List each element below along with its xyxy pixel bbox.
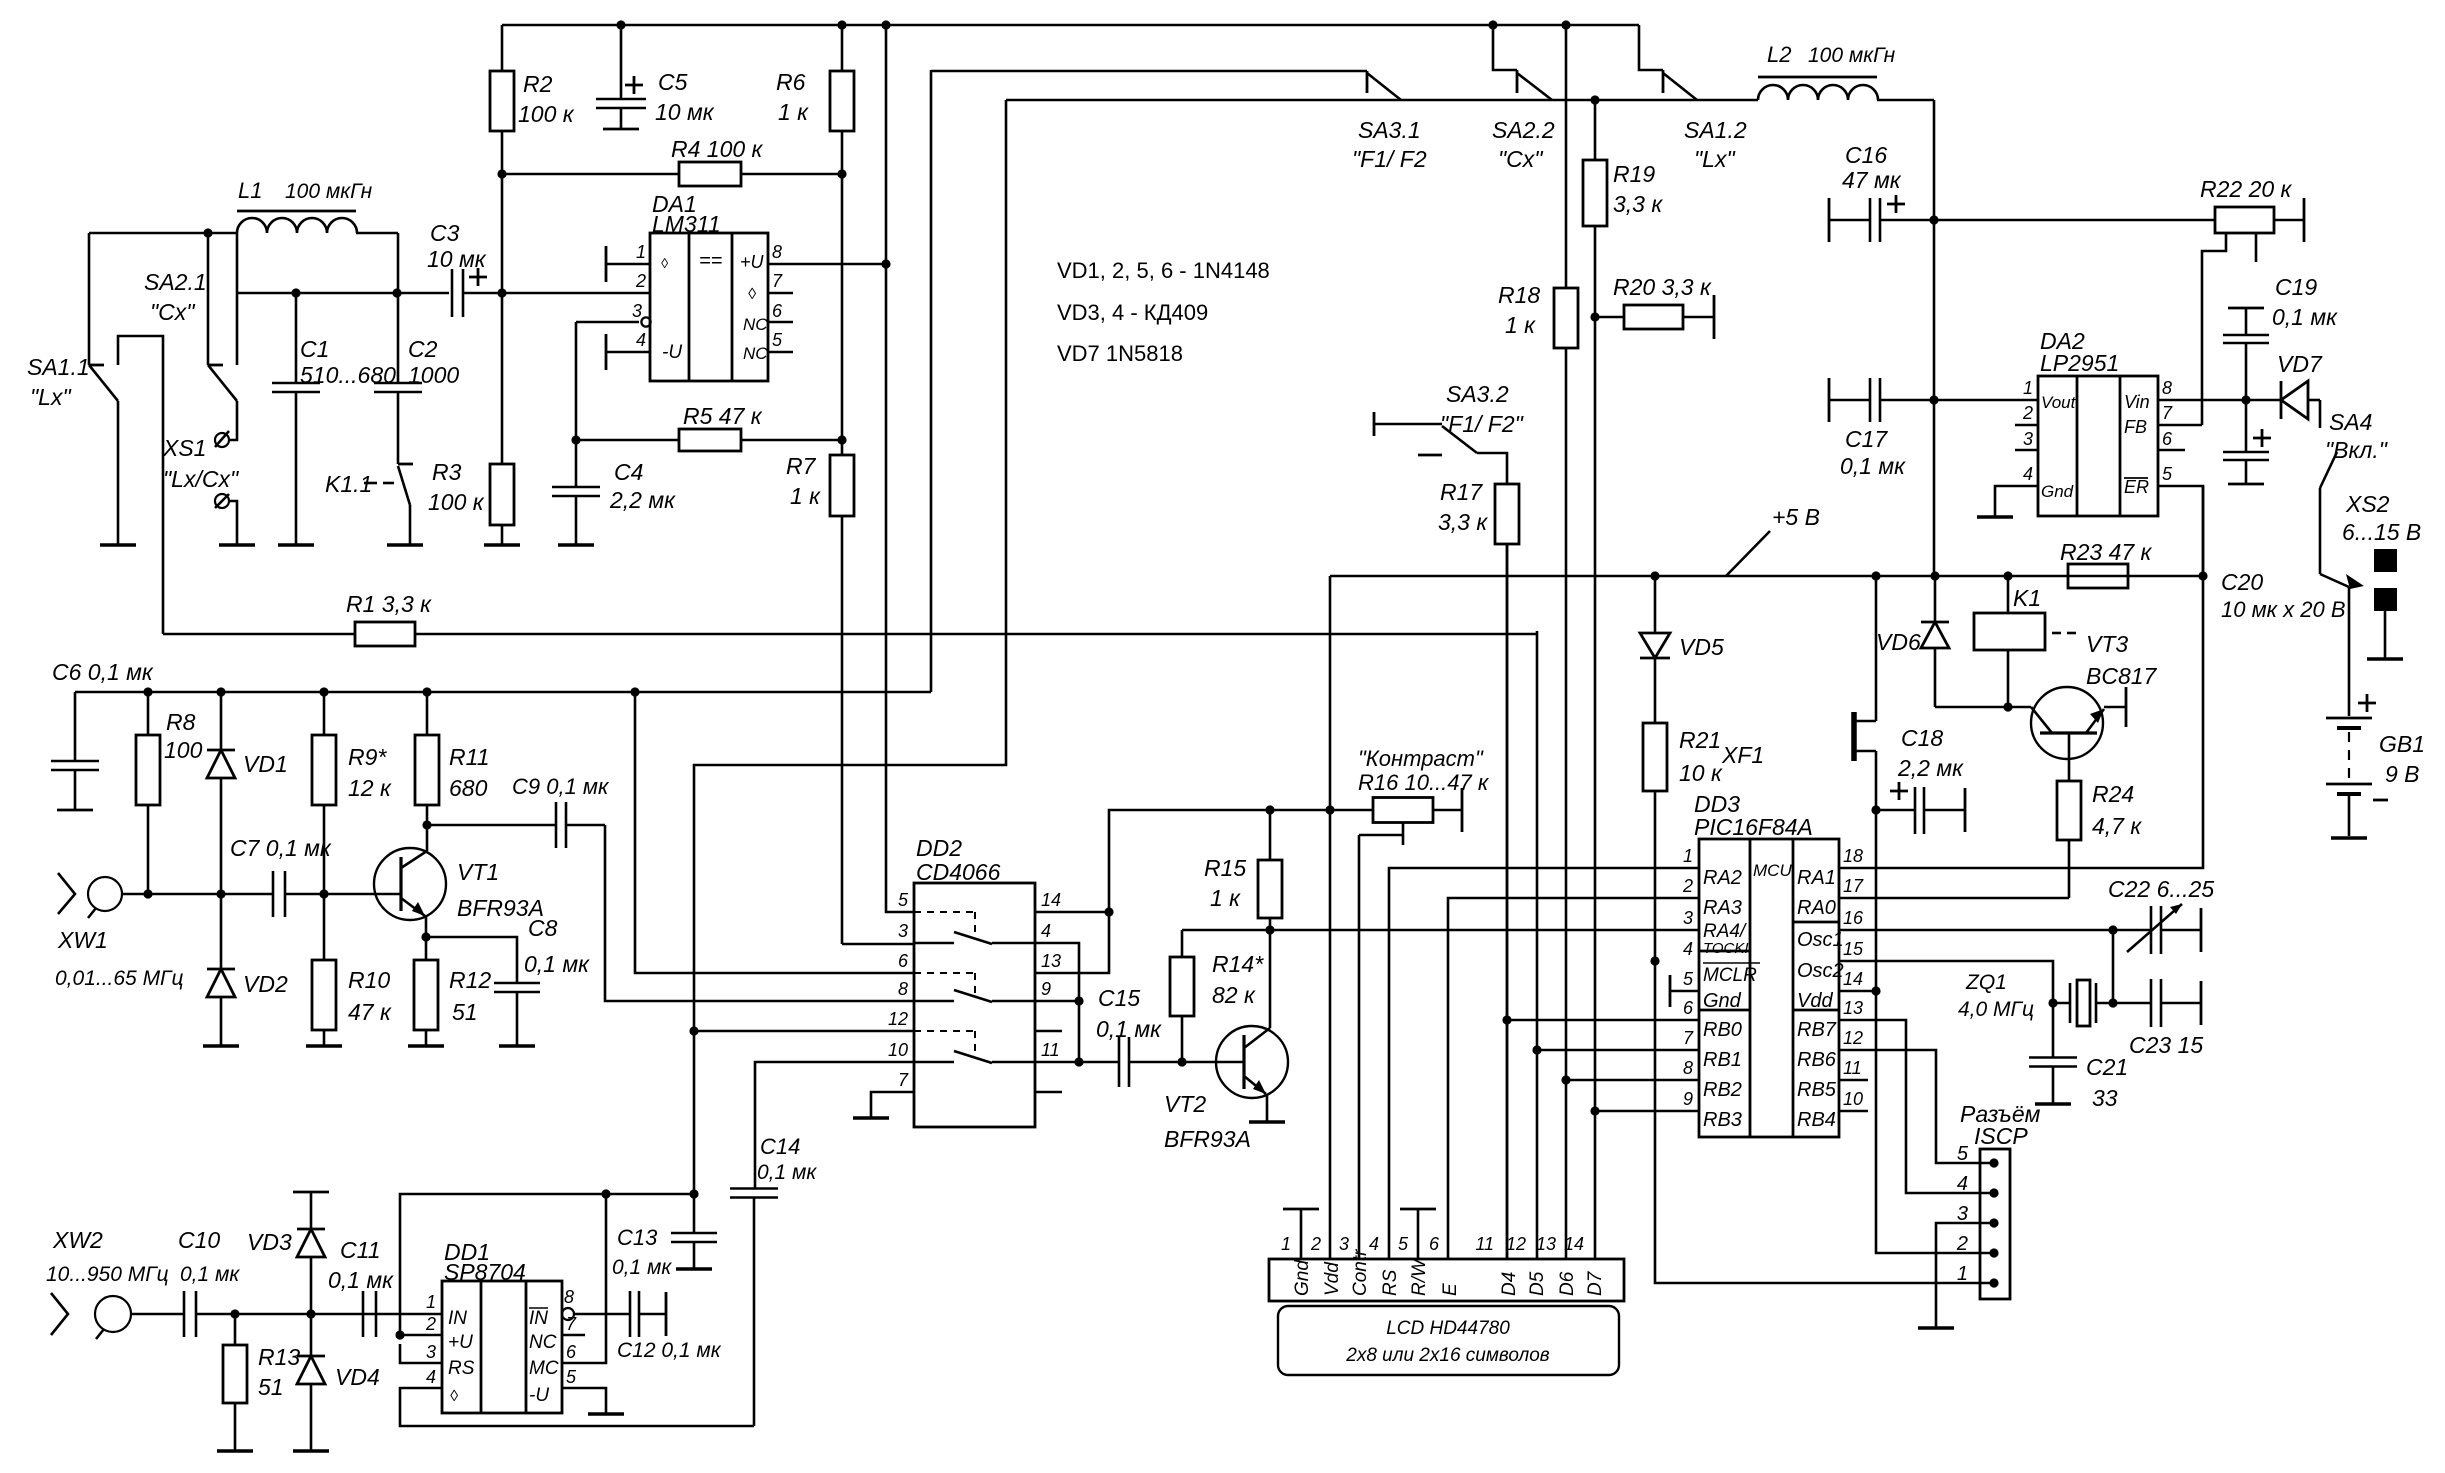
svg-text:1: 1 xyxy=(2023,378,2033,398)
DD2 pin11 wire xyxy=(1035,1061,1079,1064)
capacitor C23 xyxy=(2113,979,2203,1058)
wire RB7 pin13 to ISCP pin4 xyxy=(1839,1020,1994,1193)
svg-text:2: 2 xyxy=(635,271,646,291)
svg-text:-U: -U xyxy=(529,1385,549,1406)
svg-text:D5: D5 xyxy=(1527,1271,1548,1296)
node MCLR junction xyxy=(1650,956,1659,965)
svg-text:1: 1 xyxy=(1281,1234,1291,1254)
connector ISCP xyxy=(1960,1101,2041,1299)
svg-text:0,1 мк: 0,1 мк xyxy=(612,1256,672,1279)
svg-text:R19: R19 xyxy=(1613,161,1655,187)
svg-text:C9 0,1 мк: C9 0,1 мк xyxy=(512,774,610,799)
svg-text:47 мк: 47 мк xyxy=(1842,167,1902,193)
svg-text:MC: MC xyxy=(529,1358,559,1379)
DA2 pin8 Vin wire xyxy=(2158,399,2281,402)
node DA1 pin8 bus xyxy=(881,259,890,268)
voltage regulator DA2 LP2951 xyxy=(2038,328,2158,516)
svg-text:R5 47 к: R5 47 к xyxy=(683,403,763,429)
svg-text:RB5: RB5 xyxy=(1797,1079,1837,1101)
resistor R2 xyxy=(490,25,575,174)
capacitor C17 xyxy=(1829,378,1934,479)
svg-text:10: 10 xyxy=(1843,1089,1863,1109)
label +5 В callout xyxy=(1726,504,1820,576)
diode VD1 xyxy=(207,692,288,894)
svg-text:-U: -U xyxy=(662,342,682,363)
wire DA1 pin3 down xyxy=(575,322,578,440)
svg-text:5: 5 xyxy=(772,330,783,350)
wire VT3 collector node xyxy=(1935,706,2031,709)
svg-text:SP8704: SP8704 xyxy=(444,1259,526,1285)
svg-text:"Lx": "Lx" xyxy=(30,384,72,410)
svg-text:CD4066: CD4066 xyxy=(916,859,1001,885)
svg-text:R4 100 к: R4 100 к xyxy=(671,136,764,162)
node R15/VT2 collector xyxy=(1265,925,1274,934)
crystal ZQ1 xyxy=(1958,971,2113,1026)
capacitor C15 xyxy=(1079,985,1182,1087)
wire SA4 to battery xyxy=(2320,488,2364,589)
wire K1.1 to ground xyxy=(409,505,412,545)
wire LCD pin verticals xyxy=(1507,544,1537,1259)
diode VD5 xyxy=(1640,576,1724,660)
svg-text:RB4: RB4 xyxy=(1797,1109,1836,1131)
capacitor C19 xyxy=(2223,274,2338,400)
svg-text:6: 6 xyxy=(898,951,909,971)
svg-text:3,3 к: 3,3 к xyxy=(1438,509,1488,535)
capacitor C5 xyxy=(596,25,715,129)
svg-text:12: 12 xyxy=(888,1009,908,1029)
svg-text:R15: R15 xyxy=(1204,855,1246,881)
svg-text:VD2: VD2 xyxy=(243,971,288,997)
svg-text:9: 9 xyxy=(1683,1089,1693,1109)
resistor R3 xyxy=(428,293,514,545)
wire XF1 lower to Vdd and ISCP xyxy=(1876,751,1994,1253)
resistor R9* xyxy=(312,692,392,894)
resistor R6 xyxy=(776,25,854,174)
svg-text:BFR93A: BFR93A xyxy=(1164,1126,1251,1152)
node DD1 pin2 xyxy=(395,1330,404,1339)
svg-text:7: 7 xyxy=(1683,1028,1694,1048)
svg-text:R8: R8 xyxy=(166,709,196,735)
svg-text:VD7: VD7 xyxy=(2277,351,2323,377)
svg-text:C15: C15 xyxy=(1098,985,1140,1011)
DD1 pin3 wire xyxy=(400,1344,442,1363)
DD2 pin14 wire xyxy=(1035,911,1109,914)
relay contact K1.1 xyxy=(325,464,413,505)
svg-text:SA3.1: SA3.1 xyxy=(1358,117,1421,143)
svg-text:R21: R21 xyxy=(1679,727,1721,753)
svg-text:R22 20 к: R22 20 к xyxy=(2200,176,2293,202)
node R2/R4 junction xyxy=(497,169,506,178)
svg-text:7: 7 xyxy=(772,271,783,291)
DD3 pin5 Gnd bracket xyxy=(1670,975,1699,1007)
resistor R4 xyxy=(502,136,842,186)
svg-text:82 к: 82 к xyxy=(1212,982,1256,1008)
svg-text:1: 1 xyxy=(1957,1263,1968,1285)
svg-text:4: 4 xyxy=(426,1367,436,1387)
DA1 pin 6 stub xyxy=(768,301,793,322)
wire MCLR to ISCP pin1 xyxy=(1655,961,1994,1283)
svg-text:R3: R3 xyxy=(432,459,462,485)
node Vdd tap xyxy=(1871,986,1880,995)
wire +5V rail xyxy=(1330,575,2203,578)
inductor L2 xyxy=(1758,42,1934,100)
svg-text:C11: C11 xyxy=(340,1237,381,1263)
svg-text:VD1: VD1 xyxy=(243,751,288,777)
svg-text:5: 5 xyxy=(1957,1143,1969,1165)
switch SA3.2 xyxy=(1374,381,1525,455)
svg-text:XW2: XW2 xyxy=(52,1227,103,1253)
svg-text:10 мк: 10 мк xyxy=(655,99,715,125)
svg-text:◊: ◊ xyxy=(661,255,669,271)
node C18 tap xyxy=(1871,805,1880,814)
LCD pin names xyxy=(1292,1249,1606,1296)
switch SA2.1 xyxy=(144,233,237,401)
LCD pin numbers xyxy=(1281,1234,1584,1254)
DD1 pin numbers xyxy=(425,1287,577,1387)
prescaler DD1 SP8704 xyxy=(442,1239,562,1413)
wire C3 to DA1 pin2 xyxy=(463,292,650,295)
svg-text:0,1 мк: 0,1 мк xyxy=(1840,453,1906,479)
svg-text:13: 13 xyxy=(1041,951,1061,971)
wire Vout to DA2 pin1 xyxy=(1934,399,2038,402)
connector XS2 xyxy=(2342,491,2421,611)
svg-text:R2: R2 xyxy=(523,71,553,97)
wire SA3.2 to R17 xyxy=(1477,453,1507,484)
LCD pin5 ground xyxy=(1400,1209,1436,1259)
svg-text:C7 0,1 мк: C7 0,1 мк xyxy=(230,835,332,861)
wire VT2 collector to R15 xyxy=(1269,930,1272,1028)
node R19/R20 junction xyxy=(1590,312,1599,321)
ground R3 xyxy=(484,543,520,547)
node R3 top xyxy=(497,288,506,297)
svg-text:RB7: RB7 xyxy=(1797,1019,1837,1041)
svg-text:3: 3 xyxy=(2023,429,2033,449)
svg-text:0,1 мк: 0,1 мк xyxy=(2272,304,2338,330)
svg-text:8: 8 xyxy=(2162,378,2172,398)
node C16 junction xyxy=(1929,215,1938,224)
DD2 pin numbers xyxy=(888,890,1061,1090)
svg-text:ER: ER xyxy=(2124,477,2149,497)
svg-text:C4: C4 xyxy=(614,459,643,485)
resistor R22 xyxy=(2200,176,2304,242)
svg-text:2,2 мк: 2,2 мк xyxy=(1897,755,1964,781)
svg-text:L1: L1 xyxy=(238,178,262,203)
resistor R15 xyxy=(1204,810,1282,918)
svg-text:+U: +U xyxy=(740,252,765,272)
node emitter junction xyxy=(421,932,430,941)
node R5/C4 junction xyxy=(571,435,580,444)
svg-text:C8: C8 xyxy=(528,915,558,941)
transistor VT2 BFR93A xyxy=(1164,1026,1288,1152)
wire Osc1 to crystal xyxy=(2112,930,2115,1003)
svg-text:Vdd: Vdd xyxy=(1797,990,1833,1012)
svg-text:NC: NC xyxy=(529,1332,557,1353)
LCD pin1 ground xyxy=(1283,1209,1319,1259)
svg-text:12 к: 12 к xyxy=(348,775,392,801)
resistor R13 xyxy=(223,1314,300,1451)
svg-text:680: 680 xyxy=(449,775,488,801)
wire XW2 to C10 xyxy=(131,1313,184,1316)
svg-text:VD3, 4 - КД409: VD3, 4 - КД409 xyxy=(1057,300,1208,325)
DA1 pin 7 stub xyxy=(768,271,793,293)
node R4/R6 junction xyxy=(837,169,846,178)
svg-text:14: 14 xyxy=(1843,969,1863,989)
capacitor C9 xyxy=(427,774,610,848)
analog switch DD2 CD4066 xyxy=(914,835,1035,1127)
relay coil K1 xyxy=(1974,576,2076,707)
svg-text:R/W: R/W xyxy=(1409,1257,1430,1296)
wire RB5 pin11 stub xyxy=(1839,1079,1868,1082)
resistor R12 xyxy=(414,937,491,1046)
node R14 bottom xyxy=(1177,1057,1186,1066)
DA2 pin3 stub xyxy=(2015,449,2038,452)
DD1 pin6 MC wire xyxy=(562,1194,606,1363)
svg-text:14: 14 xyxy=(1041,890,1061,910)
DD2 pin12 right stub xyxy=(1035,1030,1062,1033)
svg-text:100 мкГн: 100 мкГн xyxy=(285,180,373,203)
svg-text:7: 7 xyxy=(898,1070,909,1090)
svg-text:SA3.2: SA3.2 xyxy=(1446,381,1509,407)
diode VD6 xyxy=(1876,576,1949,707)
svg-text:16: 16 xyxy=(1843,908,1864,928)
svg-text:5: 5 xyxy=(2162,464,2173,484)
ground C4 xyxy=(558,543,594,547)
note diode types xyxy=(1057,258,1270,366)
DA1 pin 3 output xyxy=(576,301,651,327)
svg-text:VD5: VD5 xyxy=(1679,634,1724,660)
svg-text:C17: C17 xyxy=(1845,426,1888,452)
svg-text:RB6: RB6 xyxy=(1797,1049,1837,1071)
wire RB0 pin6 to D4 xyxy=(1507,1019,1699,1022)
svg-text:K1.1: K1.1 xyxy=(325,471,372,497)
junction dots on top rail xyxy=(616,20,1570,29)
diode VD3 xyxy=(247,1192,329,1314)
svg-text:8: 8 xyxy=(772,242,782,262)
node pin9 junction xyxy=(1074,996,1083,1005)
svg-text:2: 2 xyxy=(1956,1233,1968,1255)
diode VD4 xyxy=(297,1314,380,1451)
svg-text:SA2.1: SA2.1 xyxy=(144,269,207,295)
node +5V drop tap xyxy=(1325,805,1334,814)
node RB3/D7 xyxy=(1590,1106,1599,1115)
svg-text:1000: 1000 xyxy=(408,362,459,388)
svg-text:3: 3 xyxy=(426,1342,436,1362)
svg-text:"Cx": "Cx" xyxy=(1498,146,1544,172)
svg-text:5: 5 xyxy=(898,890,909,910)
wire C16 to R22 xyxy=(1934,219,2215,222)
svg-text:RA4/: RA4/ xyxy=(1703,921,1747,942)
DD2 switch blades xyxy=(914,912,1035,1063)
node XF1 tap xyxy=(1871,571,1880,580)
svg-text:"Контраст": "Контраст" xyxy=(1358,746,1484,771)
svg-text:2: 2 xyxy=(1310,1234,1321,1254)
DD1 pin8 output xyxy=(562,1308,630,1320)
svg-text:"Lx/Cx": "Lx/Cx" xyxy=(163,466,240,492)
svg-text:VD4: VD4 xyxy=(335,1364,380,1390)
node L1 left junction xyxy=(203,228,212,237)
resistor R18 xyxy=(1498,25,1578,1259)
svg-text:6: 6 xyxy=(772,301,783,321)
svg-text:0,1 мк: 0,1 мк xyxy=(1096,1016,1162,1042)
svg-text:C13: C13 xyxy=(617,1225,658,1250)
svg-text:R18: R18 xyxy=(1498,282,1540,308)
node K1 bottom xyxy=(2003,702,2012,711)
switch SA3.1 xyxy=(1352,71,1427,172)
svg-text:4,0 МГц: 4,0 МГц xyxy=(1958,998,2034,1021)
svg-text:17: 17 xyxy=(1843,876,1864,896)
DD2 pin7 right stub xyxy=(1035,1091,1062,1094)
node DD2 pin14 xyxy=(1104,907,1113,916)
svg-text:13: 13 xyxy=(1843,998,1863,1018)
svg-text:VD6: VD6 xyxy=(1876,629,1921,655)
capacitor C1 xyxy=(272,293,396,545)
svg-text:9: 9 xyxy=(1041,979,1051,999)
svg-text:MCU: MCU xyxy=(1753,861,1792,880)
capacitor C7 xyxy=(230,835,332,917)
svg-text:SA4: SA4 xyxy=(2329,409,2372,435)
wire tank rail C1 C2 xyxy=(237,292,449,295)
transistor VT1 BFR93A xyxy=(374,848,544,921)
svg-text:RB2: RB2 xyxy=(1703,1079,1742,1101)
fuse XF1 xyxy=(1721,712,1876,768)
svg-text:R23 47 к: R23 47 к xyxy=(2060,539,2153,565)
ground GB1 xyxy=(2331,836,2367,840)
ground K1.1 xyxy=(387,543,423,547)
node R23 right junction xyxy=(2198,571,2207,580)
wire RB6 pin12 to ISCP pin5 xyxy=(1839,1050,1994,1163)
svg-text:VT2: VT2 xyxy=(1164,1091,1206,1117)
svg-text:1 к: 1 к xyxy=(1210,885,1241,911)
svg-text:PIC16F84A: PIC16F84A xyxy=(1694,814,1813,840)
svg-text:+5 В: +5 В xyxy=(1772,504,1820,530)
svg-text:D7: D7 xyxy=(1585,1270,1606,1296)
ground R13 xyxy=(217,1449,253,1453)
capacitor C13 xyxy=(612,1194,717,1279)
node R15 top xyxy=(1265,805,1274,814)
svg-text:C21: C21 xyxy=(2086,1054,2128,1080)
svg-text:L2: L2 xyxy=(1767,42,1791,67)
svg-text:C16: C16 xyxy=(1845,142,1887,168)
svg-text:C3: C3 xyxy=(430,220,460,246)
svg-text:C23 15: C23 15 xyxy=(2129,1032,2203,1058)
svg-text:100 мкГн: 100 мкГн xyxy=(1808,44,1896,67)
svg-text:VD1, 2, 5, 6 - 1N4148: VD1, 2, 5, 6 - 1N4148 xyxy=(1057,258,1270,283)
capacitor C8 xyxy=(426,915,590,1046)
node Vout junction xyxy=(1929,395,1938,404)
capacitor C21 xyxy=(2029,1054,2128,1111)
svg-text:R14*: R14* xyxy=(1212,951,1264,977)
node R13 top xyxy=(230,1309,239,1318)
wire RA0 line pin17 xyxy=(1839,897,2069,900)
wire RA2 line pin1 xyxy=(1389,868,1699,1259)
DA1 pin 5 stub xyxy=(768,330,793,352)
DA2 pin2 stub xyxy=(2015,424,2038,427)
switch SA1.2 xyxy=(1639,25,1747,172)
svg-text:RA3: RA3 xyxy=(1703,897,1742,919)
svg-text:4: 4 xyxy=(1683,939,1693,959)
wire line F to L2 xyxy=(1006,99,1758,102)
capacitor C18 xyxy=(1876,725,1965,834)
svg-text:VD3: VD3 xyxy=(247,1229,292,1255)
diode VD2 xyxy=(207,894,288,1046)
svg-text:LP2951: LP2951 xyxy=(2040,350,2119,376)
wire RB4 pin10 stub xyxy=(1839,1110,1868,1113)
wire DD2 pin13 to pin14 xyxy=(1035,912,1109,973)
svg-text:10 к: 10 к xyxy=(1679,760,1723,786)
ground C8 xyxy=(499,1044,535,1048)
ground R10 xyxy=(306,1044,342,1048)
svg-text:33: 33 xyxy=(2092,1085,2118,1111)
resistor R7 xyxy=(786,440,854,944)
svg-text:6: 6 xyxy=(1683,998,1694,1018)
svg-text:11: 11 xyxy=(1843,1058,1862,1078)
svg-text:100: 100 xyxy=(164,737,203,763)
svg-text:FB: FB xyxy=(2124,417,2147,437)
svg-text:15: 15 xyxy=(1843,939,1864,959)
DD1 pin4 wire to bottom rail xyxy=(400,1388,754,1426)
DD2 pin12 stub xyxy=(694,1030,914,1033)
node VD5 tap xyxy=(1650,571,1659,580)
svg-text:E: E xyxy=(1440,1283,1461,1296)
svg-text:==: == xyxy=(699,250,722,272)
DD3 right pin numbers xyxy=(1843,846,1864,1109)
wire C7 to VT1 base xyxy=(285,893,401,896)
svg-text:R6: R6 xyxy=(776,69,806,95)
svg-text:Osc1: Osc1 xyxy=(1797,929,1844,951)
svg-text:51: 51 xyxy=(258,1374,284,1400)
DD2 pin8 wire from C9 xyxy=(605,825,914,1001)
node crystal right xyxy=(2108,998,2117,1007)
resistor R21 xyxy=(1643,658,1723,961)
node R19 top xyxy=(1590,95,1599,104)
svg-text:2x8 или 2x16 символов: 2x8 или 2x16 символов xyxy=(1345,1345,1550,1366)
inductor L1 xyxy=(89,178,398,233)
svg-text:NC: NC xyxy=(743,344,768,363)
wire R16 wiper to LCD Contr xyxy=(1358,835,1361,1259)
wire RA1 line pin18 xyxy=(1839,486,2203,868)
wire SA1.1 contact to R1 xyxy=(118,336,163,634)
resistor R1 xyxy=(163,591,1537,646)
svg-text:XW1: XW1 xyxy=(57,927,108,953)
svg-text:8: 8 xyxy=(564,1287,574,1307)
wire top supply rail xyxy=(502,24,1639,27)
wire bus to DD2 pin12 and DD1 +U xyxy=(694,100,1006,1194)
svg-text:Gnd: Gnd xyxy=(1292,1259,1313,1296)
svg-text:R1 3,3 к: R1 3,3 к xyxy=(346,591,432,617)
svg-text:Gnd: Gnd xyxy=(1703,990,1742,1012)
svg-text:C12 0,1 мк: C12 0,1 мк xyxy=(617,1339,722,1362)
svg-text:12: 12 xyxy=(1843,1028,1863,1048)
wire RB1 pin7 to D5 xyxy=(1537,1049,1699,1052)
microcontroller DD3 PIC16F84A xyxy=(1694,791,1844,1137)
svg-text:R13: R13 xyxy=(258,1344,300,1370)
svg-text:3: 3 xyxy=(1339,1234,1349,1254)
node RB1/D5 xyxy=(1532,1045,1541,1054)
svg-text:0,1 мк: 0,1 мк xyxy=(180,1263,240,1286)
svg-text:3: 3 xyxy=(1683,908,1693,928)
node XW1 VD1 VD2 xyxy=(216,889,225,898)
input connector XW1 xyxy=(55,873,184,990)
ISCP pin contacts xyxy=(1956,1143,1999,1288)
svg-text:4,7 к: 4,7 к xyxy=(2092,813,2142,839)
node R11/C9/collector xyxy=(422,820,431,829)
svg-text:1: 1 xyxy=(1683,846,1693,866)
svg-text:2: 2 xyxy=(1682,876,1693,896)
wire C15 to VT2 base xyxy=(1182,1061,1244,1064)
resistor R14* xyxy=(1170,930,1264,1062)
wire SA1.1 throw to ground xyxy=(117,401,120,545)
node main supply tap xyxy=(1930,571,1939,580)
